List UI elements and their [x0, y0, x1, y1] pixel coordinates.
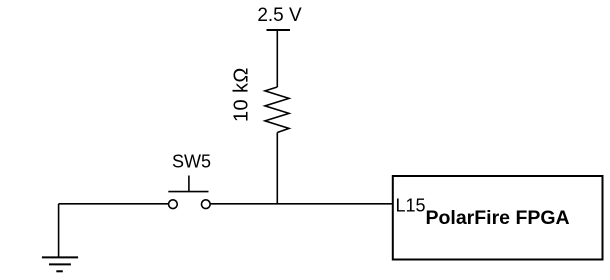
- wire ground to switch: [59, 203, 169, 205]
- wire power bar to resistor: [276, 30, 278, 87]
- switch SW5 left contact: [169, 200, 178, 209]
- switch SW5 actuator stem: [188, 176, 190, 192]
- switch SW5 right contact: [201, 200, 210, 209]
- wire down to ground: [58, 204, 60, 258]
- resistor R (10 kOhm): [265, 87, 289, 133]
- svg-text:PolarFire FPGA: PolarFire FPGA: [426, 207, 570, 229]
- power rail bar: [267, 29, 291, 31]
- switch SW5 actuator bar: [168, 191, 208, 193]
- svg-text:SW5: SW5: [172, 152, 211, 172]
- wire resistor to node: [276, 133, 278, 204]
- svg-text:L15: L15: [396, 196, 426, 216]
- svg-text:10 kΩ: 10 kΩ: [231, 67, 253, 122]
- ground symbol: [42, 257, 78, 271]
- wire switch to FPGA (node L15): [210, 203, 393, 205]
- FPGA box U1: [393, 176, 603, 260]
- svg-text:2.5 V: 2.5 V: [257, 5, 302, 26]
